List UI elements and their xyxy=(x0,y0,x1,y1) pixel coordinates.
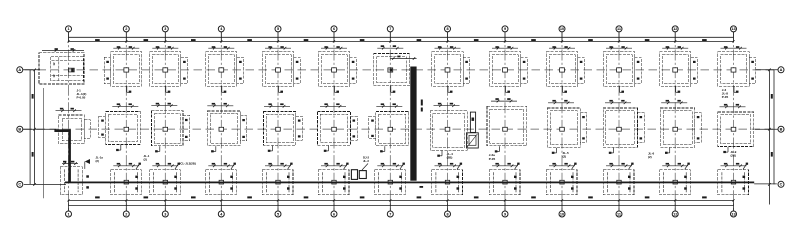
column grid line 8 xyxy=(447,32,449,211)
bottom dimension line 2 xyxy=(69,205,734,207)
svg-text:10: 10 xyxy=(560,27,564,31)
svg-text:A: A xyxy=(18,68,21,72)
detail: tall column rect xyxy=(470,112,475,132)
svg-text:(2B): (2B) xyxy=(731,153,737,157)
top dimension line 2 xyxy=(69,40,734,42)
footing B8 xyxy=(430,103,467,157)
top dimension line 1 xyxy=(69,36,734,38)
svg-text:(2B): (2B) xyxy=(447,155,453,159)
column grid line 1 xyxy=(68,32,70,211)
svg-text:(2): (2) xyxy=(648,155,652,159)
svg-text:1: 1 xyxy=(67,27,69,31)
left dimension line 1 xyxy=(29,70,31,185)
right dimension line 2 xyxy=(773,70,775,185)
footing C1 xyxy=(60,159,90,195)
footing B3 xyxy=(151,103,189,153)
grid bubble 2 top xyxy=(123,26,129,32)
footing B12 xyxy=(660,100,701,154)
label near B8 xyxy=(447,152,454,160)
grid bubble 4 bottom xyxy=(218,211,224,217)
column grid line 3 xyxy=(164,32,166,211)
footing B5 xyxy=(264,103,303,151)
grid bubble 9 top xyxy=(502,26,508,32)
grid bubble 10 top xyxy=(559,26,565,32)
grid bubble C right xyxy=(778,181,784,187)
grid bubble 10 bottom xyxy=(559,211,565,217)
grid bubble 11 bottom xyxy=(616,211,622,217)
strip footing (thick band) xyxy=(65,182,754,184)
svg-text:B: B xyxy=(18,128,21,132)
footing B1 xyxy=(56,108,91,144)
column grid line 5 xyxy=(277,32,279,211)
grid bubble 4 top xyxy=(218,26,224,32)
footing A7 xyxy=(374,45,417,92)
grid bubble 5 bottom xyxy=(275,211,281,217)
column grid line 10 xyxy=(561,32,563,211)
grid bubble 8 bottom xyxy=(445,211,451,217)
grid bubble 1 top xyxy=(66,26,72,32)
footing C2 xyxy=(111,163,142,195)
left dimension number xyxy=(32,94,34,99)
svg-text:B: B xyxy=(780,128,783,132)
svg-text:13: 13 xyxy=(731,212,735,216)
footing B7 xyxy=(369,103,409,152)
svg-text:12: 12 xyxy=(673,27,677,31)
column grid line 9 xyxy=(504,32,506,211)
footing B6 xyxy=(318,103,358,151)
footing B2 xyxy=(99,103,140,151)
svg-text:13: 13 xyxy=(731,27,735,31)
footing A1 xyxy=(39,48,84,84)
label near C2 xyxy=(96,156,104,163)
label near B1 xyxy=(144,154,150,161)
grid bubble 13 top xyxy=(731,26,737,32)
label J-1 under footing A1 xyxy=(77,88,87,99)
row B bubble stub right xyxy=(755,128,778,130)
footing A2 xyxy=(104,46,142,93)
row A bubble stub right xyxy=(756,69,778,71)
footing B9 xyxy=(487,98,527,152)
footing A9 xyxy=(489,46,527,93)
footing C8 xyxy=(432,163,463,195)
svg-text:6: 6 xyxy=(333,27,335,31)
detail: small thick rect 2 xyxy=(359,171,366,179)
footing A6 xyxy=(318,46,356,93)
footing A10 xyxy=(546,46,584,93)
svg-text:12: 12 xyxy=(52,62,56,65)
footing C4 xyxy=(206,163,237,195)
shear wall L vertical arm xyxy=(68,129,71,183)
grid bubble A left xyxy=(17,67,23,73)
svg-text:7: 7 xyxy=(389,27,391,31)
detail: hatched pit xyxy=(467,133,479,148)
column grid line 7 xyxy=(389,32,391,211)
dimension tick marks top/bottom xyxy=(67,40,734,201)
footing C5 xyxy=(262,163,293,195)
right dimension number xyxy=(771,94,773,99)
grid bubble 11 top xyxy=(616,26,622,32)
svg-text:9: 9 xyxy=(504,27,506,31)
wall edge line left of column 1 xyxy=(42,88,44,198)
row B bubble stub left xyxy=(23,128,56,130)
grid bubble 9 bottom xyxy=(502,211,508,217)
svg-text:C: C xyxy=(780,183,783,187)
label near C6 xyxy=(363,156,370,163)
grid bubble 3 top xyxy=(162,26,168,32)
grid bubble B left xyxy=(17,126,23,132)
label near bar xyxy=(421,100,423,112)
grid bubble 1 bottom xyxy=(66,211,72,217)
left dimension number 2 xyxy=(32,152,34,157)
dimension tick marks left/right xyxy=(33,69,770,186)
footing C9 xyxy=(489,163,520,195)
grid bubble B right xyxy=(778,126,784,132)
svg-text:3: 3 xyxy=(164,27,166,31)
footing B10 xyxy=(547,100,587,154)
footing B4 xyxy=(207,103,247,152)
footing A12 xyxy=(660,46,698,93)
footing A11 xyxy=(603,46,641,93)
row grid line C left stub xyxy=(24,183,66,185)
column grid line 13 xyxy=(733,32,735,211)
grid bubble 12 bottom xyxy=(672,211,678,217)
svg-text:1: 1 xyxy=(67,212,69,216)
svg-text:2: 2 xyxy=(125,212,127,216)
svg-text:A: A xyxy=(780,68,783,72)
shear wall L horizontal arm xyxy=(54,129,70,132)
detail: small thick rect 1 xyxy=(351,170,357,180)
row grid line A xyxy=(25,69,777,71)
left dimension line 2 xyxy=(34,70,36,185)
footing C11 xyxy=(603,163,634,195)
svg-text:C: C xyxy=(18,183,21,187)
footing C13 xyxy=(718,163,749,195)
grid bubble 7 bottom xyxy=(387,211,393,217)
grid bubble 5 top xyxy=(275,26,281,32)
grid bubble 2 bottom xyxy=(123,211,129,217)
svg-text:11: 11 xyxy=(617,212,621,216)
grid bubble 12 top xyxy=(672,26,678,32)
footing A5 xyxy=(262,46,300,93)
svg-text:5: 5 xyxy=(277,27,279,31)
label near B11-12 xyxy=(648,152,655,160)
svg-text:12: 12 xyxy=(52,74,56,77)
row A bubble stub left xyxy=(23,69,40,71)
row grid line B xyxy=(24,128,777,130)
svg-text:7: 7 xyxy=(389,212,391,216)
grid bubble 6 top xyxy=(331,26,337,32)
column grid line 12 xyxy=(674,32,676,211)
svg-text:(2): (2) xyxy=(96,159,99,163)
footing C10 xyxy=(546,163,577,195)
footing C12 xyxy=(660,163,691,195)
footing A4 xyxy=(206,46,244,93)
bottom dimension line 1 xyxy=(69,199,734,201)
top dimension numbers xyxy=(95,39,707,41)
column grid line 11 xyxy=(618,32,620,211)
svg-text:3: 3 xyxy=(164,212,166,216)
svg-text:5: 5 xyxy=(277,212,279,216)
label near B10 xyxy=(563,151,570,159)
footing A3 xyxy=(150,46,188,93)
footing B13 xyxy=(718,104,754,153)
footing C6 xyxy=(318,163,349,195)
footing A13 xyxy=(718,46,756,93)
svg-text:JCL-JL3(2B): JCL-JL3(2B) xyxy=(179,162,196,166)
footing C7 xyxy=(375,163,406,195)
grid bubble C left xyxy=(17,181,23,187)
svg-text:9: 9 xyxy=(504,212,506,216)
label above B13 xyxy=(722,88,729,99)
svg-text:10: 10 xyxy=(560,212,564,216)
svg-text:6: 6 xyxy=(333,212,335,216)
svg-text:P-05: P-05 xyxy=(489,157,496,161)
svg-text:12: 12 xyxy=(673,212,677,216)
footing B11 xyxy=(603,100,644,154)
svg-text:11: 11 xyxy=(617,27,621,31)
svg-text:(2): (2) xyxy=(144,157,147,161)
grid bubble A right xyxy=(778,67,784,73)
column grid line 4 xyxy=(220,32,222,211)
svg-text:P-0.05: P-0.05 xyxy=(77,96,86,100)
right dimension line 1 xyxy=(768,70,770,205)
expansion joint wall (thick bar) xyxy=(410,67,416,181)
label near C13 xyxy=(731,150,737,157)
svg-text:JL-3: JL-3 xyxy=(363,159,369,163)
footing A8 xyxy=(432,46,470,93)
label below strip near bar xyxy=(420,186,424,188)
grid bubble 3 bottom xyxy=(162,211,168,217)
column grid line 6 xyxy=(333,32,335,211)
bubble stems top and bottom xyxy=(69,32,734,211)
right dimension number 2 xyxy=(771,152,773,157)
label near C8-9 xyxy=(489,153,496,161)
svg-text:8: 8 xyxy=(446,27,448,31)
svg-text:(2): (2) xyxy=(563,155,567,159)
row grid line C right stub xyxy=(754,183,777,185)
svg-text:P-05: P-05 xyxy=(722,95,729,99)
detail: leader to label xyxy=(362,164,368,171)
bottom dimension numbers xyxy=(95,196,707,198)
grid bubble 6 bottom xyxy=(331,211,337,217)
footing C3 xyxy=(150,163,181,195)
label beam note row C left xyxy=(179,162,196,166)
column grid line 2 xyxy=(125,32,127,211)
svg-text:2: 2 xyxy=(125,27,127,31)
grid bubble 7 top xyxy=(387,26,393,32)
grid bubble 13 bottom xyxy=(731,211,737,217)
grid bubble 8 top xyxy=(445,26,451,32)
svg-text:8: 8 xyxy=(446,212,448,216)
